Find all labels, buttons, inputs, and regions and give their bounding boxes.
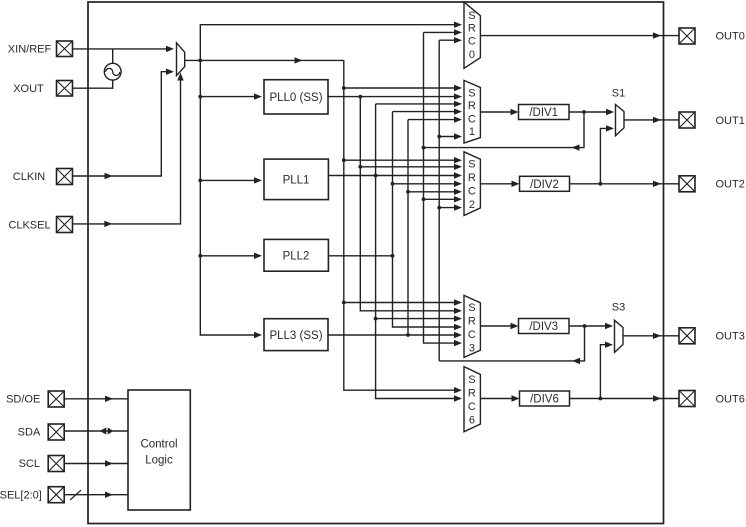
svg-text:SEL[2:0]: SEL[2:0] [0,489,42,501]
arrow into DIV2 [512,181,520,187]
wire PLL3 vertical bus [407,120,409,335]
wire osc top [112,49,114,64]
wire DIV1 to S1 [569,111,612,113]
node ref to SRC3 [342,301,346,305]
divider DIV2 [520,176,570,191]
mux S3 [615,320,624,352]
wire PLL3 to SRC2 in5 [408,191,458,193]
wire SRC6 output to DIV6 [480,398,515,400]
svg-text:S: S [468,159,475,171]
arrow into DIV1 [511,109,519,115]
mux input clock [177,43,185,76]
node ref to SRC1 [342,86,346,90]
wire XIN/REF to mux [73,48,171,50]
mux SRC0 [464,2,480,68]
wire DIV1 to SRC0 in2 [424,31,459,33]
svg-text:XIN/REF: XIN/REF [8,43,52,55]
arrow OUT2 boundary [653,181,661,187]
svg-text:/DIV3: /DIV3 [529,321,558,333]
node ref to SRC2 [342,158,346,162]
svg-text:C: C [468,401,476,413]
svg-text:R: R [468,388,476,400]
wire PLL2 output [328,255,392,257]
arrow into mux in1 [166,46,174,52]
node PLL0 bus [358,95,362,99]
svg-text:PLL1: PLL1 [283,175,310,187]
node PLL1 bus [374,174,378,178]
wire CLKIN to mux in2 [73,72,171,176]
node DIV3 to SRC1 [437,135,441,139]
wire DIV6 to OUT6 [570,398,680,400]
arrow ref mid [295,57,303,63]
wire S1 output to OUT1 [624,119,679,121]
divider DIV6 [520,391,570,406]
node DIV2 out [599,182,603,186]
wire CLKSEL to mux select [73,77,181,224]
svg-text:XOUT: XOUT [13,83,44,95]
node DIV1 out [582,110,586,114]
divider DIV1 [519,105,570,120]
wire DIV3 to SRC0 in3 [439,39,458,41]
arrow SDA bidirectional [100,428,114,435]
pin XIN/REF [57,41,73,57]
mux S1 [616,105,625,136]
svg-text:0: 0 [469,49,475,61]
wire ref to SRC2 in1 [344,159,458,161]
svg-text:3: 3 [469,343,475,355]
svg-text:S: S [468,10,475,22]
wire SRC1 output to DIV1 [480,111,514,113]
svg-text:CLKSEL: CLKSEL [8,219,50,231]
wire ref to SRC1 in1 [344,87,458,89]
arrow CLKIN [105,173,113,179]
node ref branch [198,59,202,63]
node PLL0 to SRC2 [358,165,362,169]
wire DIV1 feedback [424,112,585,148]
wire DIV3 feedback [439,326,584,361]
wire DIV3 to SRC2 in7 [439,207,458,209]
arrow into S1 in2 [606,125,614,131]
PLL1 block [264,159,328,200]
wire ref vertical bus [344,60,458,390]
wire PLL2 to SRC2 in4 [393,183,459,185]
wire S3 in2 from DIV6 [600,345,610,399]
control logic block [128,390,190,510]
PLL2 block [264,239,328,271]
wire DIV1 to SRC2 in6 [424,198,459,200]
wire to PLL1 input [200,179,258,181]
pin OUT0 [679,28,695,44]
svg-text:SDA: SDA [18,426,41,438]
svg-text:SCL: SCL [19,458,40,470]
wire S1 in2 from DIV2 [600,128,611,183]
arrow into DIV6 [512,395,520,401]
arrow CLKSEL [104,221,112,227]
arrow SD/OE [105,396,113,402]
svg-text:OUT2: OUT2 [716,179,745,191]
svg-text:PLL2: PLL2 [283,251,310,263]
svg-text:/DIV1: /DIV1 [529,107,558,119]
arrow into DIV3 [511,323,519,329]
svg-text:S: S [468,88,475,100]
wire PLL3 to SRC1 in5 [408,119,458,121]
svg-text:R: R [468,100,476,112]
arrow into PLL3 [254,332,262,338]
arrow into S3 in2 [605,342,613,348]
pin CLKSEL [57,217,73,233]
wire DIV3 to SRC1 in6 [439,136,458,138]
svg-text:1: 1 [469,126,475,138]
wire SEL to control [64,494,128,496]
svg-text:R: R [468,316,476,328]
svg-text:PLL3 (SS): PLL3 (SS) [269,330,322,342]
PLL0 block [264,80,328,114]
arrow DIV1 feedback left [572,144,580,150]
wire PLL1 vertical bus [376,104,458,399]
wire SCL to control [64,463,128,465]
svg-text:S3: S3 [612,302,625,314]
wire ref up to SRC0 [200,25,458,61]
svg-text:/DIV2: /DIV2 [530,179,559,191]
arrow into S1 in1 [606,109,614,115]
arrow into PLL1 [254,177,262,183]
svg-text:2: 2 [469,199,475,211]
node PLL1 input branch [198,179,202,183]
arrow OUT3 boundary [653,333,661,339]
svg-text:R: R [468,23,476,35]
wire PLL2 vertical bus [393,112,459,327]
svg-text:S: S [468,374,475,386]
node PLL0 input branch [198,95,202,99]
wire DIV3 to S3 [569,325,611,327]
svg-text:OUT0: OUT0 [716,31,745,43]
crystal oscillator [104,63,121,80]
svg-text:/DIV6: /DIV6 [530,394,559,406]
svg-text:OUT3: OUT3 [716,331,745,343]
node DIV6 out [599,397,603,401]
arrows SRC0 inputs [454,22,462,44]
wire PLL1 to SRC1 in3 [376,103,458,105]
wire DIV1 cascade vertical [424,32,459,343]
wire SRC2 output to DIV2 [480,183,515,185]
mux SRC1 [464,80,480,143]
wire PLL0 vertical bus [360,97,458,311]
wire SRC0 output to OUT0 [480,35,679,37]
svg-text:OUT6: OUT6 [716,393,745,405]
wire PLL0 to SRC2 in2 [360,166,458,168]
pin SCL [48,456,64,472]
svg-text:S: S [468,302,475,314]
wire to PLL0 input [200,96,258,98]
wire to PLL2 input [200,255,258,257]
pin SDA [48,424,64,440]
arrows SRC3 inputs [454,299,462,346]
mux SRC6 [464,367,480,432]
arrow SCL [105,460,113,466]
wire PLL2 to SRC1 in4 [393,111,459,113]
node DIV3 to SRC2 [437,206,441,210]
arrow OUT6 boundary [653,395,661,401]
node PLL2 input branch [198,254,202,258]
wire ref down to PLLs [200,60,258,335]
wire PLL0 output [328,96,458,98]
svg-text:PLL0 (SS): PLL0 (SS) [269,92,322,104]
wire PLL1 output [328,175,458,177]
arrow into PLL2 [254,253,262,259]
svg-text:C: C [468,114,476,126]
chip boundary [88,2,664,524]
pin OUT6 [679,391,695,407]
arrow SEL [105,492,113,498]
wire SD/OE to control [64,398,128,400]
wire S3 output to OUT3 [623,335,679,337]
svg-text:C: C [468,36,476,48]
wire DIV3 cascade vertical [438,40,440,361]
arrows SRC6 inputs [454,387,462,402]
svg-text:Control: Control [140,439,177,451]
svg-text:C: C [468,329,476,341]
svg-text:6: 6 [469,415,475,427]
node PLL3 to SRC2 [406,190,410,194]
wire SRC3 output to DIV3 [480,325,514,327]
wire XOUT to osc [73,80,113,88]
arrow DIV3 feedback left [572,358,580,364]
divider DIV3 [519,319,570,334]
svg-text:C: C [468,186,476,198]
node DIV3 out [583,324,587,328]
arrow OUT0 boundary [653,32,661,38]
wire ref from mux [185,59,344,61]
svg-text:Logic: Logic [145,455,173,467]
mux SRC3 [464,295,480,357]
arrow into mux in2 [166,69,174,75]
arrow OUT1 boundary [653,117,661,123]
arrow up into mux select [177,73,183,81]
wire ref to SRC3 in1 [344,302,458,304]
node DIV1 to SRC2 [422,197,426,201]
node PLL3 bus [406,333,410,337]
svg-text:R: R [468,172,476,184]
mux SRC2 [464,152,480,216]
svg-text:CLKIN: CLKIN [13,171,45,183]
pin CLKIN [57,169,73,185]
pin OUT2 [679,176,695,192]
wire PLL1 to SRC3 in3 [376,318,458,320]
arrows SRC2 inputs [454,157,462,211]
node DIV1 feedback [422,146,426,150]
PLL3 block [264,319,328,351]
wire DIV2 to OUT2 [570,183,680,185]
wire SDA to control [64,430,128,432]
node PLL1 to SRC3 [374,317,378,321]
pin OUT1 [679,112,695,128]
pin SEL[2:0] [48,487,64,503]
pin XOUT [57,81,73,97]
svg-text:OUT1: OUT1 [716,115,745,127]
arrows SRC1 inputs [454,85,462,140]
pin SD/OE [48,391,64,407]
wire PLL3 output [328,334,458,336]
arrow into PLL0 [254,93,262,99]
arrow into S3 in1 [605,323,613,329]
svg-text:SD/OE: SD/OE [6,394,40,406]
node PLL2 to SRC2 [391,182,395,186]
bus slash SEL [70,490,81,500]
pin OUT3 [679,328,695,344]
svg-text:S1: S1 [612,88,625,100]
node PLL2 bus [391,254,395,258]
